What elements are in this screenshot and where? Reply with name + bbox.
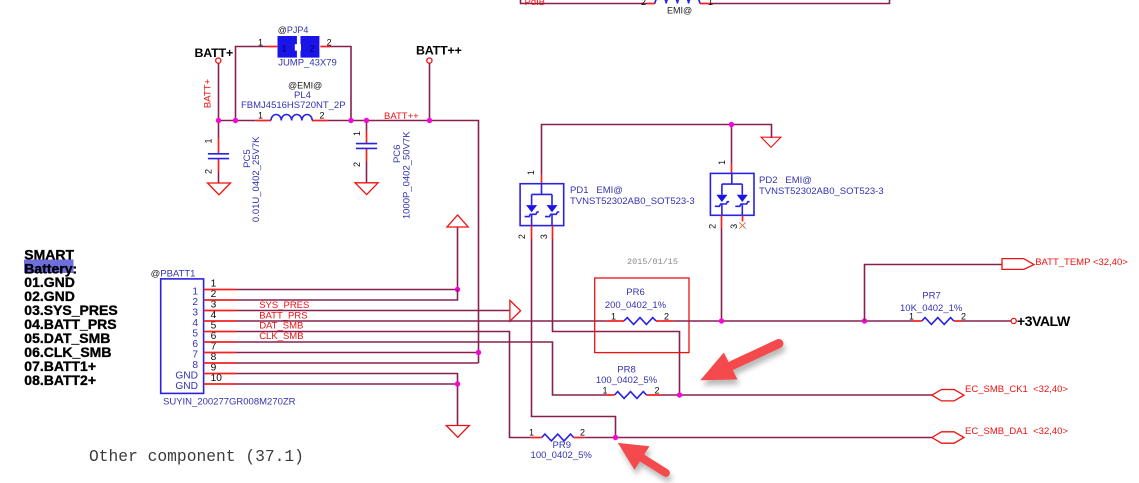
node BATT++ net label bbox=[384, 111, 419, 122]
wire pin6 CLK_SMB to PR8 bbox=[236, 342, 606, 395]
svg-text:2: 2 bbox=[204, 169, 214, 174]
svg-text:DAT_SMB: DAT_SMB bbox=[259, 320, 303, 331]
svg-text:BATT+: BATT+ bbox=[195, 46, 234, 60]
svg-text:EC_SMB_DA1 <32,40>: EC_SMB_DA1 <32,40> bbox=[965, 426, 1068, 437]
ground connector pins 9-10 bbox=[446, 426, 469, 438]
node net labels SYS_PRES BATT_PRS DAT_SMB CLK_SMB bbox=[259, 300, 309, 342]
svg-text:1: 1 bbox=[258, 38, 263, 48]
svg-text:@PBATT1: @PBATT1 bbox=[151, 268, 196, 279]
svg-text:9: 9 bbox=[211, 362, 217, 373]
svg-text:Other component (37.1): Other component (37.1) bbox=[89, 447, 304, 466]
text date stamp bbox=[627, 257, 678, 267]
node junction PR9 pin2 bbox=[613, 435, 618, 440]
svg-text:1: 1 bbox=[281, 44, 286, 54]
wire BATT_TEMP bbox=[865, 265, 1003, 322]
node junction BATT++/pin7 bbox=[476, 350, 481, 355]
svg-text:2: 2 bbox=[309, 44, 314, 54]
svg-text:7: 7 bbox=[211, 341, 217, 352]
wire pin2 GND row bbox=[236, 290, 458, 301]
svg-text:100_0402_5%: 100_0402_5% bbox=[596, 375, 658, 386]
wire PR7 to +3VALW bbox=[962, 320, 1012, 322]
wire top cut component bottom edge bbox=[521, 0, 890, 4]
wire PR6 to PR7 bbox=[673, 320, 913, 322]
wire PD top gnd rail bbox=[542, 125, 772, 175]
offpage flag BATT_TEMP bbox=[1002, 259, 1034, 270]
svg-text:3: 3 bbox=[211, 299, 217, 310]
node junction PD2 pin2 bbox=[719, 318, 724, 323]
connector PBATT1 bbox=[151, 268, 296, 407]
svg-text:08.BATT2+: 08.BATT2+ bbox=[24, 372, 96, 388]
svg-text:1: 1 bbox=[529, 427, 534, 437]
svg-text:PR7: PR7 bbox=[922, 290, 940, 301]
ground PC6 bbox=[355, 183, 378, 195]
inductor PL4 bbox=[241, 81, 346, 121]
diode PD2 bbox=[707, 160, 883, 229]
svg-text:PR6: PR6 bbox=[626, 287, 644, 298]
node junction PD2 pin1 bbox=[729, 122, 734, 127]
wire pin4 BATT_PRS to PR6 bbox=[236, 320, 606, 322]
svg-text:0.01U_0402_25V7K: 0.01U_0402_25V7K bbox=[251, 136, 262, 222]
svg-text:1: 1 bbox=[204, 138, 214, 143]
svg-text:GND: GND bbox=[175, 370, 198, 381]
svg-text:1: 1 bbox=[211, 278, 217, 289]
svg-text:1: 1 bbox=[258, 110, 263, 120]
svg-text:2: 2 bbox=[961, 311, 966, 321]
node junction BATT_TEMP bbox=[862, 318, 867, 323]
svg-text:BATT++: BATT++ bbox=[416, 44, 462, 58]
svg-text:4: 4 bbox=[211, 310, 217, 321]
svg-text:1: 1 bbox=[602, 386, 607, 396]
wire jumper loop bbox=[236, 47, 352, 121]
annotation arrow 2 (at PR9) bbox=[618, 443, 666, 473]
svg-text:TVNST52302AB0_SOT523-3: TVNST52302AB0_SOT523-3 bbox=[570, 196, 695, 207]
svg-text:2: 2 bbox=[327, 38, 332, 48]
svg-text:100_0402_5%: 100_0402_5% bbox=[531, 450, 593, 461]
wire pin9 GND bbox=[236, 374, 458, 385]
svg-text:1: 1 bbox=[708, 0, 713, 7]
resistor top cut (EMI@) bbox=[641, 0, 713, 15]
svg-text:BATT++: BATT++ bbox=[384, 111, 419, 122]
svg-text:1: 1 bbox=[717, 160, 727, 165]
svg-text:BATT+: BATT+ bbox=[203, 78, 214, 108]
svg-text:1: 1 bbox=[611, 311, 616, 321]
svg-text:6: 6 bbox=[192, 339, 198, 350]
svg-text:2: 2 bbox=[211, 289, 217, 300]
node junction jumper left leg bbox=[233, 118, 238, 123]
svg-text:2: 2 bbox=[580, 427, 585, 437]
wire PD1 pin3 to PR8 bbox=[553, 226, 680, 395]
svg-text:1: 1 bbox=[192, 286, 198, 297]
svg-text:2: 2 bbox=[654, 386, 659, 396]
svg-text:2: 2 bbox=[320, 110, 325, 120]
svg-text:SUYIN_200277GR008M270ZR: SUYIN_200277GR008M270ZR bbox=[163, 396, 296, 407]
offpage hexagon EC_SMB_CK1 bbox=[932, 390, 964, 401]
svg-text:JUMP_43X79: JUMP_43X79 bbox=[278, 57, 337, 68]
text other component note bbox=[89, 447, 304, 466]
node junction jumper right leg bbox=[348, 118, 353, 123]
svg-text:3: 3 bbox=[192, 307, 198, 318]
node EC_SMB_DA1 label bbox=[965, 426, 1068, 437]
text SMART battery list bbox=[24, 246, 118, 388]
node junction PR8 pin2 bbox=[677, 392, 682, 397]
node BATT++ terminal bbox=[416, 44, 462, 64]
offpage hexagon EC_SMB_DA1 bbox=[932, 432, 964, 443]
svg-text:6: 6 bbox=[211, 331, 217, 342]
svg-text:1: 1 bbox=[909, 311, 914, 321]
diode PD1 bbox=[517, 170, 694, 239]
node EC_SMB_CK1 label bbox=[965, 384, 1068, 395]
svg-text:4: 4 bbox=[192, 318, 198, 329]
svg-text:2: 2 bbox=[517, 234, 527, 239]
ground PC5 bbox=[208, 183, 231, 195]
jumper PJP4 bbox=[258, 25, 337, 68]
power up-arrow pin1 bbox=[447, 215, 468, 227]
svg-text:8: 8 bbox=[192, 360, 198, 371]
red highlight box around PR6 bbox=[595, 278, 689, 353]
wire pin8 BATT2+ bbox=[236, 362, 479, 364]
wire main BATT rail y=120 bbox=[219, 121, 479, 364]
svg-text:FBMJ4516HS720NT_2P: FBMJ4516HS720NT_2P bbox=[241, 100, 346, 111]
offpage arrow SYS_PRES bbox=[510, 300, 521, 321]
node junction PC6 top bbox=[364, 118, 369, 123]
svg-text:200_0402_1%: 200_0402_1% bbox=[605, 300, 667, 311]
resistor PR6 bbox=[605, 287, 673, 324]
svg-text:PdIB: PdIB bbox=[525, 0, 546, 8]
svg-text:GND: GND bbox=[175, 381, 198, 392]
wire PR9 to EC_SMB_DA1 bbox=[585, 437, 932, 439]
svg-text:TVNST52302AB0_SOT523-3: TVNST52302AB0_SOT523-3 bbox=[759, 186, 884, 197]
resistor PR7 bbox=[900, 290, 966, 324]
node PdIB label (cut) bbox=[525, 0, 546, 8]
svg-text:10: 10 bbox=[211, 373, 223, 384]
svg-text:2015/01/15: 2015/01/15 bbox=[627, 257, 678, 267]
node BATT+ terminal bbox=[195, 46, 234, 63]
wire PR8 to EC_SMB_CK1 bbox=[661, 394, 932, 396]
svg-text:2: 2 bbox=[707, 224, 717, 229]
resistor PR9 bbox=[529, 427, 592, 461]
capacitor PC5 bbox=[204, 121, 262, 223]
wire pin1 GND row bbox=[236, 227, 458, 290]
ground PD rail bbox=[761, 137, 781, 147]
annotation arrow 1 (at PR8) bbox=[700, 344, 779, 381]
node junction pin1 bbox=[455, 287, 460, 292]
svg-text:2: 2 bbox=[352, 162, 362, 167]
svg-text:3: 3 bbox=[539, 234, 549, 239]
node BATT+ net label (vertical) bbox=[203, 78, 214, 108]
svg-text:2: 2 bbox=[641, 0, 646, 7]
svg-text:2: 2 bbox=[192, 297, 198, 308]
node junction BATT++ stem bbox=[427, 118, 432, 123]
svg-text:BATT_TEMP <32,40>: BATT_TEMP <32,40> bbox=[1035, 257, 1128, 268]
capacitor PC6 bbox=[352, 121, 413, 220]
svg-text:5: 5 bbox=[211, 320, 217, 331]
node +3VALW terminal bbox=[1011, 314, 1071, 330]
svg-text:7: 7 bbox=[192, 349, 198, 360]
wire BATT++ stem bbox=[429, 63, 431, 120]
svg-text:5: 5 bbox=[192, 328, 198, 339]
svg-text:3: 3 bbox=[729, 224, 739, 229]
wire pin5 DAT_SMB to PR9 bbox=[236, 332, 531, 438]
svg-text:@PJP4: @PJP4 bbox=[278, 25, 309, 35]
svg-text:+3VALW: +3VALW bbox=[1017, 314, 1071, 330]
wire pin3 SYS_PRES bbox=[236, 310, 510, 312]
svg-text:PD1 EMI@: PD1 EMI@ bbox=[570, 185, 623, 196]
wire pin10 GND bbox=[236, 384, 458, 426]
svg-text:1: 1 bbox=[352, 131, 362, 136]
wire PD2 pin3 stub with no-connect X bbox=[739, 215, 745, 228]
wire BATT+ stem bbox=[218, 63, 220, 120]
node junction BATT+ stem / PC5 bbox=[216, 118, 221, 123]
node BATT_TEMP label bbox=[1035, 257, 1128, 268]
svg-text:2: 2 bbox=[664, 311, 669, 321]
svg-text:EMI@: EMI@ bbox=[667, 5, 692, 15]
resistor PR8 bbox=[596, 365, 661, 399]
node junction pin10 bbox=[455, 381, 460, 386]
wire PD2 pin2 down bbox=[721, 215, 723, 321]
wire PD1 pin2 to PR9 bbox=[532, 226, 616, 438]
svg-text:8: 8 bbox=[211, 352, 217, 363]
wire pin7 BATT1+ bbox=[236, 352, 479, 354]
svg-text:PD2 EMI@: PD2 EMI@ bbox=[759, 175, 812, 186]
svg-text:EC_SMB_CK1 <32,40>: EC_SMB_CK1 <32,40> bbox=[965, 384, 1068, 395]
svg-text:1: 1 bbox=[526, 170, 536, 175]
svg-text:1000P_0402_50V7K: 1000P_0402_50V7K bbox=[402, 131, 413, 219]
svg-text:CLK_SMB: CLK_SMB bbox=[259, 331, 303, 342]
